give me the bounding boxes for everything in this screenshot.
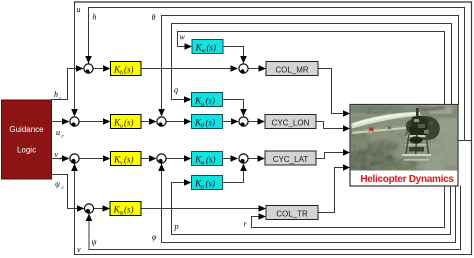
wire u_c from guidance to sum_u: [52, 121, 65, 123]
wire row3 K_phi to sum_3r: [223, 158, 234, 160]
svg-text:u: u: [56, 128, 60, 137]
arrow into sum_psi left: [77, 205, 85, 212]
label w: [180, 33, 186, 42]
controller K_q(s) cyan: [192, 93, 223, 108]
heli tail red mark: [369, 128, 374, 132]
svg-text:q: q: [174, 86, 178, 95]
arrow into sum_phi left: [149, 155, 157, 162]
heli rotor hub mast: [416, 108, 419, 117]
arrow into sum_u left: [62, 118, 70, 125]
wire v_c from guidance to sum_v: [52, 158, 65, 160]
label h: [93, 13, 97, 22]
summing junction sum_u: [70, 117, 79, 127]
arrow into sum_3r bottom: [240, 164, 247, 172]
arrowheads: [62, 43, 350, 221]
wire u feedback top: [75, 1, 472, 3]
arrow into sum_phi bottom: [158, 164, 165, 172]
label h_c: [54, 90, 62, 102]
svg-text:CYC_LAT: CYC_LAT: [273, 155, 309, 164]
heli far blade blurred: [419, 111, 457, 118]
wire COL_MR to heli input1: [318, 69, 345, 114]
wire row3 sum_phi to K_phi: [167, 158, 187, 160]
arrow into sum_3r left: [231, 155, 239, 162]
wire v feedback bottom: [75, 164, 472, 255]
summing junction sum_1r: [239, 64, 248, 74]
summing junction sum_2r: [239, 117, 248, 127]
controller K_h(s) yellow: [111, 62, 142, 77]
arrow into K_psi: [103, 205, 111, 212]
arrow into K_phi: [184, 155, 192, 162]
label theta: [152, 13, 156, 22]
arrow into heli input1: [343, 110, 350, 116]
arrow into sum_u top: [71, 109, 78, 117]
svg-text:(s): (s): [124, 65, 134, 75]
wire row2 sum_u to K_u: [80, 121, 106, 123]
wire psi_c from guidance to sum_psi: [52, 175, 80, 209]
controller K_u(s) yellow: [111, 115, 142, 130]
wire u left drop into sum_u: [74, 2, 76, 112]
arrow into heli input4: [343, 164, 350, 170]
svg-text:w: w: [202, 49, 206, 55]
svg-text:(s): (s): [206, 96, 216, 106]
svg-text:θ: θ: [152, 13, 156, 22]
arrow into sum_psi bottom: [86, 214, 93, 222]
wire CYC_LON to heli input2: [316, 122, 345, 129]
wire p feedback bottom: [172, 183, 451, 235]
heli main rotor blade: [351, 112, 421, 129]
svg-text:(s): (s): [124, 155, 134, 165]
controller K_phi(s) cyan: [192, 152, 223, 167]
summing junction sum_v: [70, 154, 79, 163]
wire h feedback: [89, 8, 465, 141]
svg-text:p: p: [174, 222, 179, 231]
wire h_c from guidance to sum_h: [52, 69, 80, 100]
arrow into CYC_LAT: [258, 155, 266, 162]
svg-text:Guidance: Guidance: [9, 125, 44, 134]
svg-text:φ: φ: [152, 233, 157, 242]
block CYC_LON: [265, 115, 316, 129]
arrow into K_h: [103, 65, 111, 72]
svg-text:v: v: [77, 245, 81, 254]
arrow into sum_h left: [76, 65, 84, 72]
svg-text:c: c: [62, 185, 65, 191]
heli landing frame: [407, 135, 427, 137]
controller K_p(s) cyan: [192, 176, 223, 191]
wire sum_1r to COL_MR: [249, 68, 262, 70]
svg-text:c: c: [62, 134, 65, 140]
arrow into sum_v left: [62, 155, 70, 162]
wire q feedback: [172, 24, 452, 105]
arrow into sum_2r top: [240, 109, 247, 117]
label psi_c: [55, 180, 65, 192]
wire row4 sum_psi to K_psi: [94, 208, 106, 210]
wire row2 K_theta to sum_2r: [223, 121, 234, 123]
arrow into K_u: [103, 118, 111, 125]
arrow into CYC_LON: [258, 118, 266, 125]
svg-text:u: u: [77, 5, 81, 14]
svg-text:r: r: [244, 220, 248, 229]
wire heli output stub: [458, 140, 471, 142]
wire row1 sum_h to K_h: [94, 68, 106, 70]
svg-text:(s): (s): [207, 43, 217, 53]
svg-text:u: u: [120, 124, 123, 130]
arrow into K_p: [184, 179, 192, 186]
arrow into sum_theta top: [158, 109, 165, 117]
label r: [244, 220, 248, 229]
svg-text:COL_MR: COL_MR: [275, 65, 309, 74]
wire row4 K_psi to COL_TR: [141, 208, 261, 210]
wire w feedback: [178, 32, 445, 105]
controller K_v(s) yellow: [111, 152, 142, 167]
svg-text:w: w: [180, 33, 186, 42]
arrow into K_v: [103, 155, 111, 162]
arrow into sum_1r top: [240, 56, 247, 64]
wire row3 sum_v to K_v: [80, 158, 106, 160]
arrow into K_w: [185, 43, 193, 50]
label q: [174, 86, 178, 95]
controller K_w(s) cyan: [192, 40, 223, 55]
svg-text:(s): (s): [124, 118, 134, 128]
svg-text:h: h: [93, 13, 97, 22]
svg-text:(s): (s): [206, 155, 216, 165]
svg-text:Logic: Logic: [17, 146, 36, 155]
wire r feedback bottom: [252, 186, 445, 228]
arrow into K_theta: [184, 118, 192, 125]
arrow into sum_theta left: [149, 118, 157, 125]
arrow into K_q: [184, 96, 192, 103]
label v: [77, 245, 81, 254]
block Helicopter Dynamics: [336, 103, 468, 186]
arrow into COL_TR lower: [259, 213, 267, 220]
arrow into COL_MR: [259, 65, 267, 72]
arrow into sum_1r left: [231, 65, 239, 72]
label phi: [152, 233, 157, 242]
wire row3 K_v to sum_phi: [141, 158, 152, 160]
svg-text:c: c: [59, 96, 62, 102]
wire K_p out to sum_3r bottom: [223, 169, 244, 183]
heli main body: [406, 116, 440, 140]
svg-text:(s): (s): [124, 205, 134, 215]
arrow into heli input2: [343, 125, 350, 131]
svg-text:CYC_LON: CYC_LON: [272, 119, 310, 128]
wire COL_TR to heli input4: [318, 168, 345, 213]
svg-text:v: v: [120, 161, 123, 167]
wire CYC_LAT to heli input3: [316, 153, 345, 159]
wire theta feedback: [162, 16, 459, 113]
label p: [174, 222, 179, 231]
wire u right trunk: [471, 2, 473, 255]
label u: [77, 5, 81, 14]
label v_c: [55, 150, 63, 162]
controller K_theta(s) cyan: [192, 115, 223, 130]
wire phi feedback bottom: [162, 164, 456, 243]
wire row2 K_u to sum_theta: [141, 121, 152, 123]
svg-text:ψ: ψ: [92, 238, 98, 247]
controller K_psi(s) yellow: [110, 202, 141, 217]
svg-text:v: v: [55, 150, 59, 159]
label u_c: [56, 128, 65, 140]
wire K_q out to sum_2r top: [223, 100, 244, 112]
summing junction sum_h: [84, 64, 93, 74]
summing junction sum_phi: [157, 154, 166, 163]
block Guidance Logic: [2, 100, 52, 179]
svg-text:ψ: ψ: [120, 211, 124, 217]
wire K_w out to sum_1r top: [223, 47, 244, 59]
heli tail boom: [352, 126, 407, 135]
svg-text:θ: θ: [201, 124, 204, 130]
summing junction sum_3r: [239, 154, 248, 163]
arrow into heli input3: [343, 149, 350, 155]
svg-text:(s): (s): [206, 118, 216, 128]
svg-text:ψ: ψ: [55, 180, 61, 189]
arrow into COL_TR upper: [259, 205, 267, 212]
arrow into sum_v bottom: [71, 164, 78, 172]
svg-text:COL_TR: COL_TR: [276, 209, 308, 218]
arrow into sum_h top: [85, 56, 92, 64]
block COL_MR: [266, 62, 318, 76]
svg-text:p: p: [200, 185, 204, 191]
svg-text:h: h: [120, 71, 123, 77]
wire sum_3r to CYC_LAT: [249, 158, 261, 160]
summing junction sum_theta: [157, 117, 166, 127]
svg-text:(s): (s): [206, 179, 216, 189]
block CYC_LAT: [265, 151, 316, 165]
wire row1 K_h to sum_1r: [141, 68, 233, 70]
label psi: [92, 238, 98, 247]
wire row2 sum_theta to K_theta: [167, 121, 187, 123]
arrow into sum_2r left: [231, 118, 239, 125]
wire psi feedback bottom: [89, 186, 461, 250]
svg-text:q: q: [201, 102, 204, 108]
block COL_TR: [266, 206, 318, 220]
svg-text:h: h: [54, 90, 58, 99]
svg-text:Helicopter Dynamics: Helicopter Dynamics: [360, 174, 454, 185]
wire sum_2r to CYC_LON: [249, 121, 261, 123]
summing junction sum_psi: [84, 204, 93, 213]
